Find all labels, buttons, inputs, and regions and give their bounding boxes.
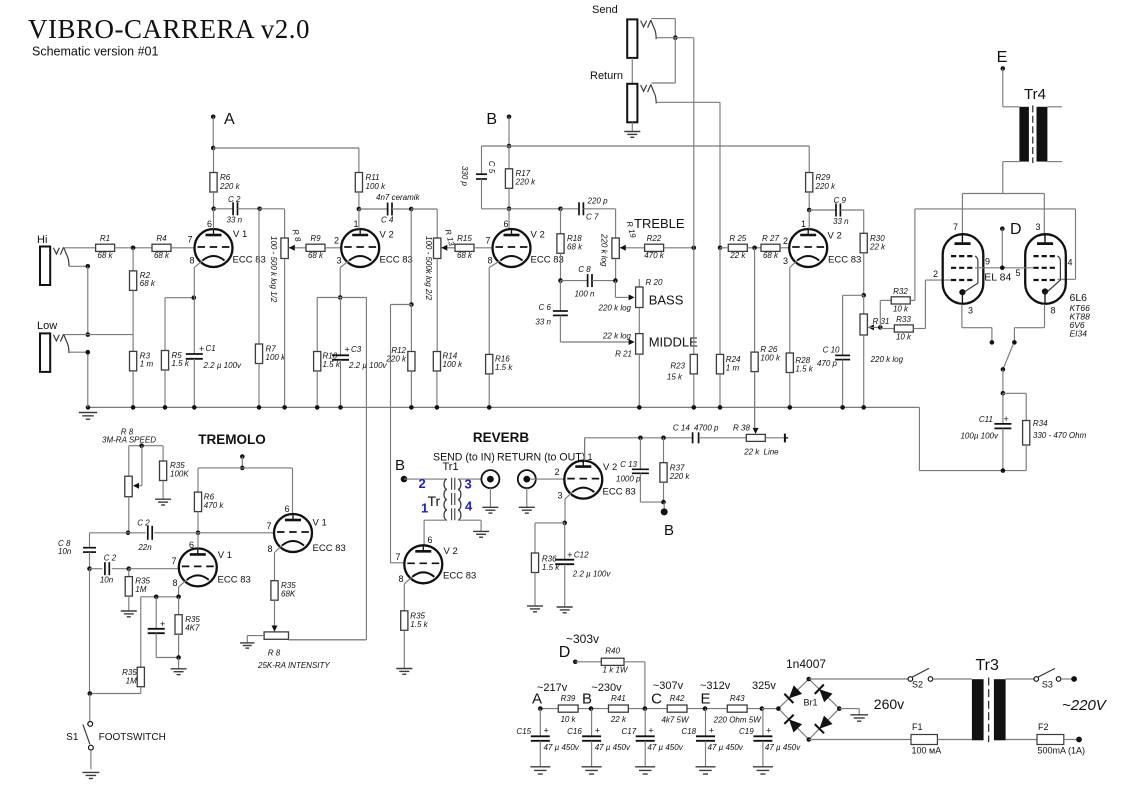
- wire V2c plate: [808, 210, 810, 229]
- svg-text:33 n: 33 n: [535, 318, 551, 327]
- resistor R9: [306, 234, 325, 260]
- svg-text:2: 2: [419, 476, 426, 491]
- svg-text:4700 p: 4700 p: [694, 424, 719, 433]
- resistor R26: [751, 248, 781, 428]
- svg-text:47 µ 450v: 47 µ 450v: [595, 743, 631, 752]
- svg-text:R29: R29: [816, 173, 831, 182]
- svg-text:6: 6: [503, 219, 508, 229]
- ground symbol return rca: [519, 507, 535, 513]
- junction: [673, 35, 678, 40]
- svg-text:C 8: C 8: [578, 265, 591, 274]
- junction: [637, 405, 642, 410]
- svg-text:10 k: 10 k: [893, 305, 909, 314]
- wire Tr3 to F2: [1006, 739, 1037, 741]
- tube type labels: [1070, 292, 1091, 339]
- svg-text:3: 3: [557, 491, 562, 501]
- junction: [807, 208, 812, 213]
- resistor R17: [505, 146, 536, 209]
- capacitor C7: [561, 197, 616, 222]
- resistor R35 1M b: [122, 597, 144, 694]
- junction: [211, 207, 216, 212]
- svg-text:1n4007: 1n4007: [786, 657, 826, 671]
- svg-text:B: B: [486, 111, 497, 128]
- wire V2a cathode: [339, 268, 341, 298]
- svg-text:25K-RA INTENSITY: 25K-RA INTENSITY: [257, 661, 330, 670]
- svg-text:C19: C19: [739, 727, 754, 736]
- svg-text:15 k: 15 k: [667, 373, 683, 382]
- wire send contact: [657, 37, 675, 39]
- capacitor C6: [535, 281, 634, 345]
- svg-text:C 10: C 10: [823, 346, 840, 355]
- wire R15 to V2b grid: [474, 247, 493, 249]
- svg-text:3: 3: [968, 306, 973, 316]
- ground symbol C12: [557, 607, 573, 613]
- ground symbol intensity: [240, 643, 254, 648]
- svg-text:68 k: 68 k: [97, 251, 113, 260]
- svg-text:10n: 10n: [58, 547, 72, 556]
- svg-text:+: +: [160, 619, 165, 629]
- speed pot caption: [102, 428, 156, 445]
- svg-text:22 k: 22 k: [743, 448, 760, 457]
- wire R32 to 6L6 grid pin4: [915, 209, 1076, 301]
- svg-text:ECC 83: ECC 83: [380, 255, 413, 266]
- svg-text:220 k: 220 k: [219, 182, 241, 191]
- junction: [338, 295, 343, 300]
- junction: [86, 332, 91, 337]
- resistor R2: [130, 248, 156, 291]
- resistor R4: [152, 234, 171, 260]
- svg-text:1.5 k: 1.5 k: [495, 363, 513, 372]
- resistor R29: [806, 146, 836, 210]
- svg-text:1.5 k: 1.5 k: [795, 365, 813, 374]
- ground symbol osc cathode: [171, 669, 187, 675]
- svg-text:100 n: 100 n: [574, 290, 595, 299]
- junction: [176, 595, 181, 600]
- svg-text:C11: C11: [979, 415, 993, 424]
- wire C4 out to pot R13: [411, 209, 437, 238]
- triode V1 tremolo osc: [171, 540, 250, 588]
- svg-text:Low: Low: [37, 320, 57, 332]
- svg-text:100 k: 100 k: [443, 360, 464, 369]
- svg-text:4k7 5W: 4k7 5W: [661, 716, 690, 725]
- resistor R6 470k: [194, 492, 224, 533]
- transformer Tr3: [972, 657, 1006, 742]
- wire bridge plus to S2: [809, 678, 909, 680]
- junction: [126, 531, 131, 536]
- resistor R7: [255, 209, 286, 408]
- junction: [638, 436, 643, 441]
- node B: [486, 111, 511, 146]
- wire to ground: [178, 658, 180, 669]
- svg-text:100 - 500k log 2/2: 100 - 500k log 2/2: [424, 236, 433, 301]
- wire switch to C11: [1002, 369, 1004, 393]
- svg-text:47 µ 450v: 47 µ 450v: [708, 743, 744, 752]
- wire V1 osc plate: [197, 533, 199, 549]
- svg-text:V 2: V 2: [828, 231, 842, 242]
- capacitor C8: [561, 265, 616, 299]
- svg-text:1M: 1M: [135, 585, 146, 594]
- wire to footswitch: [89, 569, 91, 694]
- svg-text:R34: R34: [1033, 419, 1048, 428]
- svg-text:Schematic version #01: Schematic version #01: [32, 45, 159, 59]
- junction: [718, 246, 723, 251]
- svg-text:ECC 83: ECC 83: [603, 487, 636, 498]
- svg-text:C 7: C 7: [586, 213, 599, 222]
- pin 2 label: [933, 269, 938, 279]
- svg-text:22 k: 22 k: [729, 251, 746, 260]
- wire S2 to Tr3: [933, 678, 972, 680]
- svg-text:330 p: 330 p: [460, 166, 469, 187]
- wire C8 branch: [90, 533, 129, 548]
- wire Tr1 pin4 to ground: [458, 520, 481, 531]
- wire send tip: [651, 19, 675, 38]
- resistor R41: [609, 694, 629, 724]
- svg-text:220 Ohm 5W: 220 Ohm 5W: [713, 716, 763, 725]
- svg-text:R 21: R 21: [615, 350, 632, 359]
- tremolo supply node: [240, 454, 245, 470]
- Return label: [590, 70, 623, 82]
- svg-text:R11: R11: [366, 173, 380, 182]
- svg-text:C1: C1: [206, 344, 216, 353]
- svg-text:68K: 68K: [281, 590, 296, 599]
- svg-text:+: +: [648, 726, 653, 736]
- svg-text:Send: Send: [592, 4, 618, 16]
- Tr pin numbers: [419, 476, 474, 516]
- junction: [507, 144, 512, 149]
- triode V1 tremolo amp: [266, 504, 345, 554]
- svg-text:220 k: 220 k: [515, 178, 537, 187]
- resistor R18: [557, 209, 583, 281]
- svg-text:+: +: [1004, 414, 1009, 424]
- svg-text:C 5: C 5: [487, 161, 496, 174]
- wire R19 wiper: [620, 245, 645, 251]
- svg-text:R6: R6: [220, 173, 231, 182]
- svg-text:R42: R42: [670, 694, 685, 703]
- junction: [357, 207, 362, 212]
- junction: [338, 405, 343, 410]
- wire Low sleeve to ground bus: [69, 352, 88, 407]
- triode V2b: [485, 219, 563, 268]
- wire Hi tip to R1: [64, 247, 96, 249]
- intensity caption: [257, 649, 330, 671]
- svg-text:22 k: 22 k: [869, 243, 886, 252]
- svg-text:V 2: V 2: [531, 230, 545, 241]
- Send label: [592, 4, 618, 16]
- input jack Hi: [40, 247, 69, 286]
- junction: [861, 405, 866, 410]
- ground symbol at bus left end: [79, 413, 97, 420]
- junction: [435, 405, 440, 410]
- svg-text:~230v: ~230v: [591, 682, 622, 694]
- wire plate node to tone stack: [482, 208, 561, 210]
- potentiometer R31 master: [860, 295, 904, 407]
- node A psu: [532, 682, 568, 711]
- ground symbol C16: [582, 767, 602, 774]
- pin labels EL84: [953, 222, 1012, 316]
- svg-text:+: +: [199, 344, 204, 354]
- svg-text:10n: 10n: [100, 576, 114, 585]
- junction: [176, 655, 181, 660]
- capacitor C11: [960, 393, 1011, 470]
- triode V2c: [783, 219, 861, 268]
- voltage 303: [566, 632, 599, 646]
- svg-text:~220V: ~220V: [1062, 697, 1108, 714]
- cathode select switch: [1003, 344, 1014, 370]
- capacitor C9: [809, 196, 864, 226]
- capacitor C2 22n: [128, 519, 198, 553]
- svg-text:VIBRO-CARRERA v2.0: VIBRO-CARRERA v2.0: [28, 14, 310, 44]
- line output jack: [765, 434, 788, 443]
- junction: [752, 246, 757, 251]
- svg-text:BASS: BASS: [649, 293, 684, 308]
- svg-text:1: 1: [353, 219, 358, 229]
- svg-text:220 k: 220 k: [669, 472, 691, 481]
- svg-text:C 14: C 14: [673, 424, 690, 433]
- svg-text:R22: R22: [647, 234, 662, 243]
- svg-text:R 25: R 25: [729, 234, 746, 243]
- bridge rectifier Br1: [776, 677, 841, 742]
- svg-text:1.5 k: 1.5 k: [323, 360, 341, 369]
- svg-text:R33: R33: [896, 315, 911, 324]
- junction: [558, 278, 563, 283]
- junction: [87, 566, 92, 571]
- junction: [661, 500, 666, 505]
- resistor R35 1M: [125, 569, 150, 611]
- wire B rail: [482, 145, 810, 147]
- junction: [88, 691, 93, 696]
- wire to R34: [1003, 392, 1026, 394]
- wire recovery plate: [584, 438, 586, 461]
- rca jack send: [481, 470, 499, 507]
- svg-text:R15: R15: [457, 234, 472, 243]
- resistor R22: [644, 234, 665, 260]
- svg-text:ECC 83: ECC 83: [218, 575, 251, 586]
- wire return contact to R25: [657, 102, 720, 248]
- junction: [840, 405, 845, 410]
- ground symbol bridge: [850, 715, 868, 721]
- wire V1a cathode down: [193, 268, 195, 298]
- svg-text:100 k: 100 k: [266, 353, 287, 362]
- junction: [692, 246, 697, 251]
- ground symbol R35 1M: [121, 611, 137, 617]
- resistor R24: [716, 248, 741, 408]
- svg-text:3M-RA SPEED: 3M-RA SPEED: [102, 436, 156, 445]
- wire return to V2 grid: [530, 478, 564, 480]
- svg-text:R40: R40: [605, 647, 620, 656]
- wire R31 wiper: [868, 324, 880, 330]
- svg-text:10 k: 10 k: [560, 715, 576, 724]
- wire Tr1 pin3 to send rca: [458, 478, 481, 480]
- TREMOLO title: [198, 432, 266, 447]
- send/return caption: [433, 452, 585, 464]
- potentiometer R21 middle: [602, 332, 698, 408]
- Low label: [37, 320, 57, 332]
- svg-text:V 2: V 2: [603, 462, 617, 473]
- svg-text:6: 6: [427, 535, 432, 545]
- junction: [154, 595, 159, 600]
- wire R9 to V2a grid: [325, 247, 341, 249]
- svg-text:68 k: 68 k: [567, 243, 583, 252]
- capacitor C17: [622, 709, 684, 767]
- Hi label: [37, 234, 47, 246]
- svg-text:B: B: [664, 522, 674, 539]
- svg-text:C 2: C 2: [104, 554, 117, 563]
- svg-text:~303v: ~303v: [566, 632, 599, 646]
- svg-text:8: 8: [1050, 306, 1055, 316]
- svg-text:+: +: [709, 726, 714, 736]
- ground symbol R35 100K: [155, 499, 171, 505]
- svg-text:68 k: 68 k: [308, 251, 324, 260]
- svg-text:E: E: [997, 49, 1008, 66]
- svg-text:325v: 325v: [752, 680, 776, 692]
- svg-text:6: 6: [207, 219, 212, 229]
- wire V2b plate: [508, 209, 510, 229]
- resistor R25: [720, 234, 761, 260]
- junction: [562, 521, 567, 526]
- svg-text:V 1: V 1: [233, 229, 247, 240]
- svg-text:470 k: 470 k: [204, 501, 225, 510]
- capacitor C12: [555, 523, 611, 607]
- svg-text:33 n: 33 n: [227, 216, 243, 225]
- svg-text:100 k: 100 k: [760, 354, 781, 363]
- svg-text:2: 2: [783, 236, 788, 246]
- svg-text:+: +: [766, 726, 771, 736]
- svg-text:470 k: 470 k: [644, 251, 665, 260]
- svg-text:R41: R41: [611, 694, 626, 703]
- svg-text:220 k log: 220 k log: [600, 233, 609, 267]
- junction: [1001, 367, 1006, 372]
- wire footswitch node: [90, 693, 141, 695]
- svg-text:R9: R9: [310, 234, 321, 243]
- potentiometer R38 line out: [733, 372, 779, 457]
- svg-text:Tr4: Tr4: [1024, 86, 1046, 103]
- wire bridge bottom to F1: [809, 739, 911, 741]
- potentiometer R19 treble: [600, 216, 685, 281]
- ground symbol C19: [753, 767, 773, 774]
- junction: [760, 706, 765, 711]
- wire Tr4 to plates: [962, 162, 1044, 235]
- node B reverb: [395, 457, 407, 482]
- wire C2 to V1a grid: [129, 568, 179, 570]
- fuse F1: [911, 722, 941, 756]
- wire recovery cathode: [564, 499, 566, 523]
- wire S3 to terminal: [1061, 676, 1077, 682]
- wire F1 to Tr3: [937, 739, 972, 741]
- svg-text:1: 1: [801, 219, 806, 229]
- capacitor C13: [616, 438, 663, 502]
- svg-text:10 k: 10 k: [896, 333, 912, 342]
- triode V2a: [334, 219, 413, 268]
- junction: [192, 295, 197, 300]
- wire speed pot top: [129, 446, 163, 477]
- junction: [861, 293, 866, 298]
- svg-text:R 20: R 20: [646, 278, 663, 287]
- svg-text:7: 7: [171, 556, 176, 566]
- svg-text:8: 8: [398, 574, 403, 584]
- svg-text:Br1: Br1: [804, 698, 818, 708]
- svg-text:~217v: ~217v: [537, 682, 568, 694]
- wire Tr3 to S3: [1006, 678, 1034, 680]
- capacitor C1: [186, 298, 242, 408]
- ground symbol driver: [396, 669, 412, 675]
- junction: [718, 405, 723, 410]
- fx jack Send: [627, 19, 656, 58]
- svg-text:2: 2: [554, 467, 559, 477]
- node B terminal: [661, 502, 674, 539]
- fx jack Return: [627, 84, 656, 123]
- svg-text:C 13: C 13: [620, 460, 637, 469]
- svg-text:D: D: [559, 644, 571, 661]
- svg-text:22 k: 22 k: [610, 715, 627, 724]
- resistor R40: [575, 647, 645, 675]
- svg-text:1M: 1M: [126, 677, 137, 686]
- svg-text:220 p: 220 p: [587, 197, 609, 206]
- pentode EL84: [943, 234, 984, 304]
- resistor R35 driver cathode: [401, 584, 429, 669]
- triode V1a: [187, 219, 265, 268]
- svg-text:8: 8: [189, 256, 194, 266]
- potentiometer R8 volume 1: [269, 228, 303, 407]
- svg-text:1: 1: [587, 452, 592, 462]
- svg-text:8: 8: [267, 544, 272, 554]
- junction: [1012, 340, 1017, 345]
- junction: [211, 146, 216, 151]
- svg-text:22n: 22n: [137, 543, 152, 552]
- wire R2 to R3: [132, 290, 134, 351]
- junction: [86, 350, 91, 355]
- REVERB title: [473, 430, 530, 445]
- svg-text:7: 7: [395, 552, 400, 562]
- capacitor C19: [739, 709, 801, 767]
- svg-text:TREMOLO: TREMOLO: [198, 432, 266, 447]
- capacitor C15: [516, 709, 579, 767]
- wire grid line to V1b: [198, 532, 274, 534]
- svg-text:68 k: 68 k: [154, 251, 170, 260]
- svg-text:47 µ 450v: 47 µ 450v: [647, 743, 683, 752]
- wire V2a plate: [358, 209, 360, 229]
- capacitor tremolo bypass: [148, 597, 179, 658]
- svg-text:4K7: 4K7: [185, 624, 200, 633]
- capacitor C4: [359, 193, 421, 225]
- wire osc cathode node: [141, 587, 179, 597]
- svg-text:R39: R39: [561, 694, 576, 703]
- ground symbol S1: [83, 772, 100, 778]
- svg-text:Tr3: Tr3: [976, 657, 1000, 674]
- capacitor C18: [681, 709, 743, 767]
- svg-text:C16: C16: [567, 727, 582, 736]
- svg-text:Line: Line: [764, 448, 780, 457]
- junction: [613, 278, 618, 283]
- svg-text:1.5 k: 1.5 k: [410, 620, 428, 629]
- svg-text:EI34: EI34: [1070, 329, 1088, 339]
- svg-text:R 31: R 31: [873, 317, 890, 326]
- svg-text:47 µ 450v: 47 µ 450v: [765, 743, 801, 752]
- junction: [86, 264, 91, 269]
- capacitor C16: [567, 709, 631, 767]
- potentiometer R8 intensity: [247, 626, 366, 643]
- svg-text:D: D: [1010, 221, 1022, 238]
- svg-text:C15: C15: [516, 727, 531, 736]
- svg-text:68 k: 68 k: [763, 251, 779, 260]
- svg-text:ECC 83: ECC 83: [313, 543, 346, 554]
- wire cathode node: [317, 297, 366, 299]
- wire to bridge: [762, 708, 779, 710]
- ground symbol Tr1: [473, 531, 489, 537]
- svg-text:7: 7: [953, 222, 958, 232]
- ground symbol R36: [527, 606, 543, 612]
- svg-text:3: 3: [1035, 222, 1040, 232]
- resistor R35 100K: [160, 446, 190, 500]
